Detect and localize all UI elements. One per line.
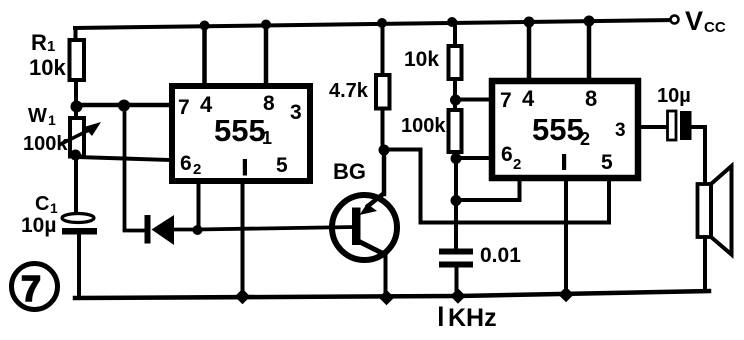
svg-text:1: 1 bbox=[47, 38, 55, 55]
svg-text:4.7k: 4.7k bbox=[329, 80, 369, 102]
svg-text:6: 6 bbox=[501, 143, 513, 166]
svg-text:555: 555 bbox=[532, 112, 584, 147]
svg-text:6: 6 bbox=[180, 152, 192, 175]
svg-text:R: R bbox=[31, 30, 47, 55]
svg-text:5: 5 bbox=[276, 154, 288, 177]
svg-text:2: 2 bbox=[513, 156, 521, 173]
svg-text:10k: 10k bbox=[29, 55, 66, 80]
svg-text:7: 7 bbox=[178, 96, 190, 119]
svg-text:3: 3 bbox=[290, 101, 302, 124]
svg-text:5: 5 bbox=[601, 151, 613, 174]
svg-text:1: 1 bbox=[262, 128, 272, 148]
svg-text:4: 4 bbox=[200, 92, 213, 117]
svg-text:100k: 100k bbox=[401, 115, 446, 137]
svg-text:10µ: 10µ bbox=[21, 214, 56, 237]
svg-text:555: 555 bbox=[214, 113, 266, 148]
svg-text:2: 2 bbox=[193, 161, 201, 178]
svg-text:7: 7 bbox=[500, 89, 512, 112]
svg-text:10µ: 10µ bbox=[657, 85, 691, 107]
svg-text:2: 2 bbox=[580, 129, 590, 149]
svg-text:8: 8 bbox=[585, 86, 597, 111]
svg-text:W: W bbox=[28, 105, 47, 127]
svg-text:7: 7 bbox=[21, 268, 41, 309]
svg-text:0.01: 0.01 bbox=[480, 244, 521, 267]
svg-text:100k: 100k bbox=[23, 133, 68, 155]
svg-text:1: 1 bbox=[48, 112, 56, 128]
svg-text:4: 4 bbox=[522, 86, 535, 111]
svg-text:CC: CC bbox=[704, 19, 726, 36]
svg-text:3: 3 bbox=[615, 120, 626, 141]
svg-text:8: 8 bbox=[263, 92, 275, 115]
svg-text:C: C bbox=[35, 193, 49, 215]
svg-text:10k: 10k bbox=[404, 48, 439, 71]
svg-text:BG: BG bbox=[333, 159, 366, 184]
svg-text:KHz: KHz bbox=[448, 304, 497, 332]
svg-text:V: V bbox=[685, 6, 703, 36]
